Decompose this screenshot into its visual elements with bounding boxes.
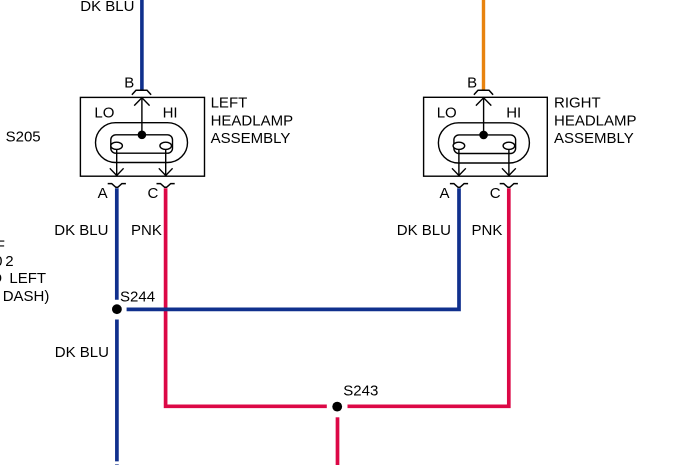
- svg-text:PNK: PNK: [131, 222, 162, 239]
- connector half at right pin A: [450, 184, 468, 188]
- svg-text:B: B: [124, 75, 134, 92]
- svg-text:LO: LO: [94, 105, 114, 122]
- right bulb outer envelope: [438, 123, 529, 163]
- connector half at left pin A: [108, 184, 126, 188]
- svg-text:ASSEMBLY: ASSEMBLY: [211, 130, 291, 147]
- wire: right LO filament lead: [458, 146, 460, 176]
- svg-text:C: C: [490, 185, 501, 202]
- connector half at right pin B: [474, 90, 493, 95]
- svg-text:LEFT: LEFT: [9, 270, 46, 287]
- svg-text:A: A: [98, 185, 108, 202]
- wire: ORN feed into right headlamp pin B: [482, 0, 485, 90]
- svg-text:C: C: [148, 185, 159, 202]
- arrow out of right pin A: [452, 168, 466, 175]
- svg-text:RIGHT: RIGHT: [554, 94, 601, 111]
- component label: RIGHT HEADLAMP ASSEMBLY: [554, 94, 637, 147]
- svg-text:DK BLU: DK BLU: [54, 222, 108, 239]
- clipped note line 2 (02 fragment): [0, 253, 14, 270]
- wire: DK BLU from S244 right and up to right pin A: [127, 188, 459, 309]
- svg-text:PNK: PNK: [472, 222, 503, 239]
- svg-text:ASSEMBLY: ASSEMBLY: [554, 130, 634, 147]
- junction dot at splice S244: [112, 304, 122, 314]
- connector half at right pin C: [500, 184, 518, 188]
- connector half at left pin B: [132, 90, 151, 95]
- right headlamp assembly box: [424, 97, 548, 176]
- wire: DK BLU from left pin A down to splice S244: [115, 188, 119, 300]
- left bulb outer envelope: [96, 123, 188, 163]
- arrow out of left pin A: [110, 168, 124, 175]
- arrow out of left pin C: [159, 168, 173, 175]
- svg-text:DK BLU: DK BLU: [80, 0, 134, 15]
- arrow out of right pin C: [502, 168, 516, 175]
- wire: right B internal lead: [483, 98, 485, 135]
- wire: left LO filament lead: [116, 146, 118, 176]
- svg-text:HI: HI: [163, 105, 178, 122]
- svg-text:2: 2: [5, 253, 13, 270]
- clipped note line 3 (O LEFT fragment): [0, 270, 46, 287]
- svg-text:S205: S205: [6, 128, 41, 145]
- right LO filament loop: [453, 142, 465, 149]
- junction dot at right bulb common: [479, 131, 488, 140]
- svg-text:DASH): DASH): [3, 288, 50, 305]
- component label: LEFT HEADLAMP ASSEMBLY: [211, 94, 294, 147]
- svg-text:HI: HI: [506, 105, 521, 122]
- wire: left HI filament lead: [165, 146, 167, 176]
- left headlamp assembly box: [80, 97, 204, 176]
- svg-text:S244: S244: [120, 289, 155, 306]
- svg-text:B: B: [467, 75, 477, 92]
- arrow into left pin B: [134, 98, 149, 106]
- svg-text:LEFT: LEFT: [211, 94, 248, 111]
- left HI filament loop: [160, 142, 172, 149]
- wire: DK BLU from S244 down off page: [115, 320, 119, 462]
- right bulb inner glass: [454, 135, 516, 154]
- svg-text:HEADLAMP: HEADLAMP: [211, 112, 294, 129]
- wire: PNK from S243 right and up to right pin C: [348, 188, 509, 406]
- wire: right HI filament lead: [508, 146, 510, 176]
- wire: PNK from left pin C down and right to splice S243: [166, 188, 327, 406]
- svg-text:0: 0: [0, 253, 2, 270]
- arrow into right pin B: [476, 98, 491, 106]
- left bulb inner glass: [111, 135, 173, 153]
- svg-text:A: A: [440, 185, 450, 202]
- wire: DK BLU feed into left headlamp pin B: [140, 0, 144, 90]
- wire: PNK from S243 down off page: [336, 417, 340, 465]
- connector half at left pin C: [157, 184, 175, 188]
- svg-text:DK BLU: DK BLU: [397, 222, 451, 239]
- junction dot at splice S243: [332, 402, 342, 412]
- junction dot at left bulb common: [138, 131, 147, 140]
- svg-text:O: O: [0, 270, 2, 287]
- wire: left B internal lead: [141, 98, 143, 135]
- right HI filament loop: [503, 142, 515, 149]
- left LO filament loop: [111, 142, 123, 149]
- svg-text:HEADLAMP: HEADLAMP: [554, 112, 637, 129]
- svg-text:DK BLU: DK BLU: [55, 344, 109, 361]
- svg-text:LO: LO: [437, 105, 457, 122]
- svg-text:S243: S243: [343, 383, 378, 400]
